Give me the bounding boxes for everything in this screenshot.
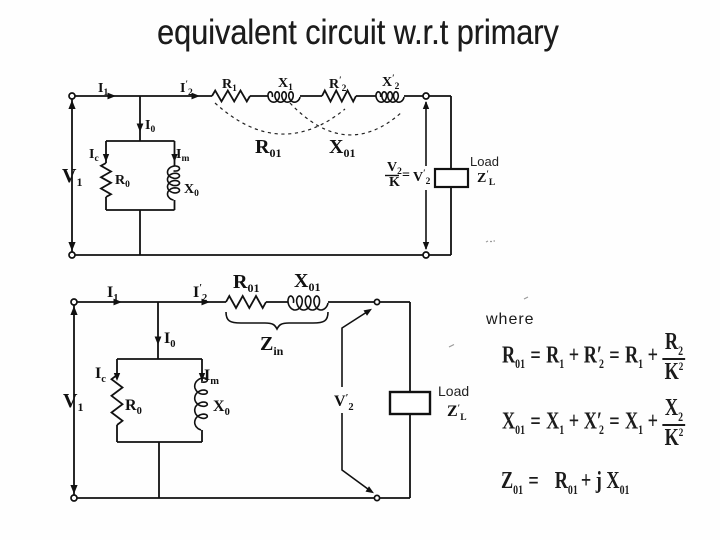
current arrow Im (bottom circuit) xyxy=(199,373,205,381)
shunt return wire (top circuit) xyxy=(139,210,141,255)
svg-text:R0: R0 xyxy=(125,397,142,417)
resistor R1 xyxy=(212,91,250,102)
magnetizing box bottom edge (top circuit) xyxy=(106,209,175,211)
wire output node to right corner xyxy=(429,95,451,97)
brace Zin xyxy=(226,312,328,329)
terminal top-left (top circuit) xyxy=(69,93,75,99)
svg-text:Zin: Zin xyxy=(260,333,284,358)
current arrow I1 (bottom circuit) xyxy=(114,299,123,306)
wire X01 to node (bottom circuit) xyxy=(328,301,374,303)
equation Z01 = R01 + j X01 xyxy=(501,468,630,498)
svg-text:Load: Load xyxy=(438,383,469,399)
shunt return wire (bottom circuit) xyxy=(158,442,160,498)
current arrow Ic (top circuit) xyxy=(103,154,109,162)
wire R1 to X1 xyxy=(250,95,268,97)
svg-text:X0: X0 xyxy=(184,182,199,199)
branch Im wire upper (top circuit) xyxy=(174,141,176,166)
svg-text:Im: Im xyxy=(176,147,189,164)
svg-text:=: = xyxy=(402,168,410,183)
svg-text:I1: I1 xyxy=(107,284,118,304)
svg-text:X01: X01 xyxy=(294,270,320,294)
branch Im wire lower (top circuit) xyxy=(174,200,176,210)
inductor X'2 xyxy=(376,92,404,102)
wire right side (bottom circuit) xyxy=(409,302,411,498)
wire left side / V1 arrows (top circuit) xyxy=(71,99,73,252)
svg-text:Z′L: Z′L xyxy=(477,169,495,188)
svg-text:Ic: Ic xyxy=(89,147,99,164)
svg-text:K: K xyxy=(389,175,400,190)
branch Ic wire lower (top circuit) xyxy=(105,197,107,210)
node output top (bottom circuit) xyxy=(374,299,379,304)
wire bottom (top circuit) xyxy=(75,254,451,256)
resistor R0 (top circuit) xyxy=(101,163,111,197)
inductor X1 xyxy=(268,92,300,102)
terminal bottom-left (top circuit) xyxy=(69,252,75,258)
svg-text:R1: R1 xyxy=(222,77,237,94)
current arrow I0 (top circuit) xyxy=(137,124,144,133)
dashed grouping arc X01 xyxy=(290,103,402,135)
terminal bottom-left (bottom circuit) xyxy=(71,495,77,501)
voltage arrow V'2 (top circuit) xyxy=(425,102,427,249)
svg-text:Ic: Ic xyxy=(95,365,106,385)
label where xyxy=(486,311,535,329)
wire right side (top circuit) xyxy=(450,96,452,255)
svg-text:Load: Load xyxy=(470,154,499,169)
load box (bottom circuit) xyxy=(390,392,430,414)
shunt branch wire with I0 (top circuit) xyxy=(139,96,141,141)
voltage arrow V'2 (bottom circuit) xyxy=(342,310,372,492)
dashed grouping arc R01 xyxy=(215,103,345,134)
current arrow Ic (bottom circuit) xyxy=(114,373,120,381)
terminal output bottom (top circuit) xyxy=(423,252,429,258)
label V2/K = V'2 xyxy=(385,160,431,190)
inductor X0 (bottom circuit) xyxy=(195,378,208,430)
wire X'2 to output node xyxy=(404,95,423,97)
terminal top-left (bottom circuit) xyxy=(71,299,77,305)
title xyxy=(157,13,559,53)
current arrow Im (top circuit) xyxy=(171,154,177,162)
label Load ZL (top circuit) xyxy=(470,154,499,188)
svg-text:I0: I0 xyxy=(145,118,155,135)
label V'2 (bottom circuit) xyxy=(333,387,358,413)
node output bottom (bottom circuit) xyxy=(374,495,379,500)
svg-text:I1: I1 xyxy=(98,81,108,98)
wire R'2 to X'2 xyxy=(356,95,376,97)
svg-text:X01: X01 xyxy=(329,136,355,160)
load box (top circuit) xyxy=(435,169,468,187)
svg-text:Im: Im xyxy=(204,367,219,387)
current arrow I1 (top circuit) xyxy=(108,93,117,100)
branch Im wire lower (bottom circuit) xyxy=(201,430,203,442)
resistor R01 xyxy=(226,296,266,308)
magnetizing box bottom edge (bottom circuit) xyxy=(117,441,202,443)
wire R01 to X01 xyxy=(266,301,288,303)
branch Im wire upper (bottom circuit) xyxy=(201,359,203,381)
scan speckles xyxy=(449,241,528,347)
svg-text:R′2: R′2 xyxy=(329,75,347,94)
resistor R0 (bottom circuit) xyxy=(112,375,123,425)
svg-text:I′2: I′2 xyxy=(193,283,207,304)
current arrow I'2 (bottom circuit) xyxy=(202,299,211,306)
wire node to right corner (bottom circuit) xyxy=(380,301,410,303)
branch Ic wire upper (top circuit) xyxy=(105,141,107,163)
wire top-left segment (bottom circuit) xyxy=(77,301,226,303)
svg-text:R01: R01 xyxy=(255,136,281,160)
svg-text:Z′L: Z′L xyxy=(447,403,467,423)
wire bottom (bottom circuit) xyxy=(77,497,410,499)
resistor R'2 xyxy=(322,91,356,102)
wire left side / V1 arrows (bottom circuit) xyxy=(73,305,75,495)
wire top-left segment (top circuit) xyxy=(75,95,212,97)
svg-text:V1: V1 xyxy=(62,165,82,189)
svg-text:X1: X1 xyxy=(278,76,293,93)
shunt branch wire with I0 (bottom circuit) xyxy=(157,302,159,359)
svg-text:R01: R01 xyxy=(233,271,259,295)
equation R01 = R1 + R'2 = R1 + R2/K^2 xyxy=(502,331,685,383)
current arrow I0 (bottom circuit) xyxy=(155,337,162,346)
label Load Z'L (bottom circuit) xyxy=(438,383,469,423)
inductor X0 (top circuit) xyxy=(168,166,180,200)
wire X1 to R'2 xyxy=(300,95,322,97)
current arrow I'2 (top circuit) xyxy=(192,93,201,100)
magnetizing box top edge (bottom circuit) xyxy=(117,358,202,360)
terminal output top (top circuit) xyxy=(423,93,429,99)
branch Ic wire upper (bottom circuit) xyxy=(116,359,118,375)
svg-text:X0: X0 xyxy=(213,398,230,418)
inductor X01 xyxy=(288,296,328,310)
equation X01 = X1 + X'2 = X1 + X2/K^2 xyxy=(502,397,685,449)
svg-text:V1: V1 xyxy=(63,390,83,414)
branch Ic wire lower (bottom circuit) xyxy=(116,425,118,442)
svg-text:R0: R0 xyxy=(115,173,130,190)
svg-text:I0: I0 xyxy=(164,330,175,350)
magnetizing box top edge (top circuit) xyxy=(106,140,175,142)
svg-text:X′2: X′2 xyxy=(382,73,400,92)
